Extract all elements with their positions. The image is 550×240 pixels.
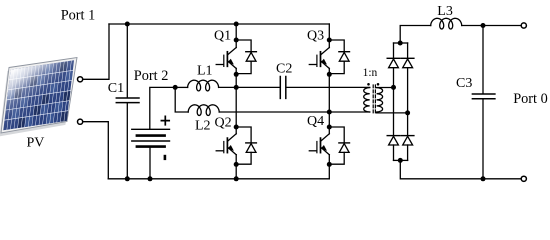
wire bridge bottom to output rail xyxy=(400,160,521,178)
svg-text:Q4: Q4 xyxy=(307,114,324,129)
transformer T1 primary winding xyxy=(364,88,370,112)
IGBT Q3 xyxy=(309,24,332,87)
battery negative lead xyxy=(149,148,151,179)
gate lead xyxy=(216,150,223,152)
node secondary top / left leg xyxy=(391,85,396,90)
emitter wire with arrow xyxy=(227,61,236,69)
node bridge top xyxy=(398,41,403,46)
Port 0 negative terminal xyxy=(521,176,526,181)
node Q1 emitter xyxy=(234,72,239,77)
diode D7 (bridge bottom-left) xyxy=(387,136,400,161)
node Port 2 junction xyxy=(173,85,178,90)
node bridge bottom xyxy=(398,158,403,163)
node Q2 collector branch xyxy=(234,125,239,130)
svg-text:L3: L3 xyxy=(437,4,453,19)
transformer polarity dot primary xyxy=(367,83,370,86)
battery positive lead xyxy=(150,87,175,129)
bottom rail xyxy=(108,178,329,180)
diode D4 (antiparallel Q4) xyxy=(329,127,349,164)
gate lead xyxy=(216,64,223,66)
wire bridge top to L3 xyxy=(400,26,431,44)
emitter wire with arrow xyxy=(227,147,236,155)
node secondary bottom / right leg xyxy=(405,110,410,115)
diode D6 (bridge top-right) xyxy=(401,43,414,113)
svg-text:Q2: Q2 xyxy=(215,116,232,131)
transformer core xyxy=(372,85,374,115)
svg-text:Q3: Q3 xyxy=(307,28,324,43)
inductor L3 xyxy=(431,18,462,29)
wire L3 to output xyxy=(462,25,521,27)
capacitor C2 xyxy=(279,77,281,99)
svg-text:PV: PV xyxy=(27,136,45,151)
node Q1 collector branch xyxy=(234,38,239,43)
svg-text:1:n: 1:n xyxy=(363,67,378,79)
upper bus wire: legA to C2 xyxy=(236,86,280,88)
svg-text:C2: C2 xyxy=(276,61,292,76)
IGBT Q2 xyxy=(216,125,239,182)
gate bar xyxy=(223,142,225,153)
wire leg A mid xyxy=(235,87,237,133)
diode D3 (antiparallel Q3) xyxy=(329,40,349,74)
wire secondary bottom xyxy=(377,112,408,114)
inductor L2 xyxy=(188,105,219,116)
wire PV+ to top rail xyxy=(83,24,109,79)
node Q4 collector branch xyxy=(327,125,332,130)
node Q3 collector branch xyxy=(327,38,332,43)
node leg A / upper bus xyxy=(234,85,239,90)
inductor L1 xyxy=(175,86,187,88)
svg-text:Port 0: Port 0 xyxy=(513,91,548,107)
svg-text:Port 1: Port 1 xyxy=(61,7,96,23)
PV positive terminal xyxy=(78,77,83,82)
lower bus wire L2 to transformer xyxy=(219,111,370,113)
battery - mark xyxy=(164,155,167,160)
node Q1 top rail xyxy=(234,22,239,27)
IGBT Q4 xyxy=(309,125,332,179)
svg-text:Port 2: Port 2 xyxy=(134,68,169,84)
diode D8 (bridge bottom-right) xyxy=(401,113,414,160)
wire PV- to bottom rail xyxy=(83,122,109,179)
node Q2 emitter xyxy=(234,162,239,167)
PV negative terminal xyxy=(78,119,83,124)
PV panel xyxy=(0,58,77,137)
wire leg B mid xyxy=(328,87,330,133)
svg-text:L1: L1 xyxy=(197,63,213,78)
node C3 bottom xyxy=(481,176,486,181)
node Q2 bottom rail xyxy=(234,176,239,181)
collector wire xyxy=(235,24,237,48)
wire Port2 down to L2 xyxy=(175,87,188,112)
wire secondary top xyxy=(377,87,394,89)
svg-text:C3: C3 xyxy=(456,76,472,91)
svg-text:Q1: Q1 xyxy=(214,28,231,43)
node battery bottom xyxy=(148,176,153,181)
transformer polarity dot secondary xyxy=(377,83,380,86)
node Q4 emitter xyxy=(327,162,332,167)
transformer T1 secondary winding xyxy=(377,88,383,112)
rectifier bridge bottom join xyxy=(394,159,408,161)
channel bar xyxy=(226,52,228,67)
node Q3 emitter xyxy=(327,72,332,77)
svg-text:L2: L2 xyxy=(195,118,211,133)
capacitor C1 xyxy=(126,24,128,97)
channel bar xyxy=(226,138,228,153)
wire left leg mid xyxy=(393,87,395,135)
gate bar xyxy=(223,55,225,66)
Port 0 positive terminal xyxy=(521,23,526,28)
capacitor C3 xyxy=(482,26,484,94)
battery plates xyxy=(132,128,170,130)
top rail xyxy=(109,23,329,25)
battery + sign xyxy=(161,116,169,124)
rectifier bridge top join xyxy=(394,42,408,44)
IGBT Q1 xyxy=(216,22,239,88)
node C1 top xyxy=(125,22,130,27)
node C1 bottom xyxy=(125,176,130,181)
diode D1 (antiparallel Q1) xyxy=(236,40,256,74)
node leg B / lower bus xyxy=(327,110,332,115)
diode D5 (bridge top-left) xyxy=(387,43,400,87)
diode D2 (antiparallel Q2) xyxy=(236,127,256,164)
svg-text:C1: C1 xyxy=(108,81,124,96)
node C3 top xyxy=(481,23,486,28)
upper bus wire: C2 to transformer primary xyxy=(287,86,370,88)
